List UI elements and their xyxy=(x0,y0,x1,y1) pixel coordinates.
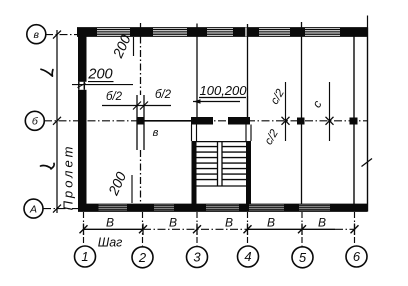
axis 3 line upper xyxy=(196,24,198,118)
top wall outline xyxy=(77,28,368,37)
axis 2 partition wall lines xyxy=(137,95,144,150)
svg-text:5: 5 xyxy=(299,250,307,265)
axis Б solid segment xyxy=(144,120,191,122)
axis 2 line upper xyxy=(140,23,142,95)
axis 2 line lower xyxy=(140,150,142,204)
staircase right wall xyxy=(246,141,251,204)
axis circle 2 xyxy=(132,247,153,268)
right wall outer line xyxy=(367,28,369,212)
svg-text:4: 4 xyxy=(244,249,251,264)
axis circle В xyxy=(27,25,46,44)
dimension vertical с xyxy=(329,82,331,141)
tick at В xyxy=(53,31,61,39)
axis circle А xyxy=(24,199,43,218)
window W4 top xyxy=(259,30,290,35)
dimension line б/2 xyxy=(102,105,171,107)
tick at Б xyxy=(53,117,61,125)
axis circle 1 xyxy=(75,246,96,267)
stair treads right flight xyxy=(222,147,246,180)
svg-text:100,200: 100,200 xyxy=(200,83,248,98)
top wall black band xyxy=(77,28,368,37)
svg-text:Шаг: Шаг xyxy=(98,236,123,250)
label l lower xyxy=(41,163,55,169)
stub above top-right corner xyxy=(367,16,369,28)
svg-text:200: 200 xyxy=(87,67,112,83)
bottom wall outline xyxy=(78,204,368,211)
axis А horizontal xyxy=(43,208,78,210)
svg-text:в: в xyxy=(153,127,159,139)
axis circle 4 xyxy=(238,246,259,267)
right wall inner line xyxy=(353,37,355,205)
svg-text:1: 1 xyxy=(81,249,88,264)
svg-text:в: в xyxy=(34,29,40,41)
bottom dimension line dashdot 2-4 xyxy=(143,228,248,230)
axis circle Б xyxy=(25,111,44,130)
axis circle 3 xyxy=(187,247,208,268)
axis Б horizontal dash-dot xyxy=(44,120,368,122)
stair center gap xyxy=(218,142,223,186)
dimension vertical near с/2 xyxy=(285,82,287,141)
window W2 bottom xyxy=(154,206,174,210)
bottom dimension line solid 1-2 xyxy=(84,228,144,230)
svg-text:б/2: б/2 xyxy=(106,91,123,103)
window W2 top xyxy=(153,30,187,35)
dimension line 100,200 xyxy=(193,101,240,103)
window W4 bottom xyxy=(249,206,284,210)
svg-text:2: 2 xyxy=(138,250,147,265)
window W3 top xyxy=(207,30,233,35)
window in left wall xyxy=(77,82,87,90)
axis stubs below bottom wall xyxy=(84,212,355,247)
window W5 bottom xyxy=(299,206,330,210)
svg-text:В: В xyxy=(106,216,114,230)
svg-text:В: В xyxy=(267,216,275,230)
pylon at axis 3 on row Б xyxy=(191,117,213,125)
svg-text:3: 3 xyxy=(193,250,201,265)
axis 5 line xyxy=(301,22,303,204)
window W1 top xyxy=(97,30,130,35)
axis circle 5 xyxy=(292,247,313,268)
axis circle 6 xyxy=(346,246,367,267)
svg-text:6: 6 xyxy=(353,249,361,264)
tick on right wall xyxy=(362,159,373,167)
diagonal ticks on bottom dimension line xyxy=(80,225,359,233)
svg-text:Пролет: Пролет xyxy=(61,144,76,211)
window W5 top xyxy=(305,30,340,35)
svg-text:В: В xyxy=(318,216,326,230)
axis В horizontal xyxy=(45,34,78,36)
tick bars on bottom dimension line xyxy=(84,224,355,236)
left dimension line xyxy=(56,30,58,213)
stair enclosure upper lines xyxy=(192,125,252,142)
window W1 bottom xyxy=(99,206,128,210)
svg-text:А: А xyxy=(29,203,37,215)
left wall xyxy=(78,28,87,212)
tick at А xyxy=(53,205,61,213)
stair flights bottom edge xyxy=(197,185,247,187)
bottom dimension line dashdot 5-6 xyxy=(335,228,355,230)
staircase left wall xyxy=(192,141,197,204)
pylon at axis 4 on row Б xyxy=(228,117,250,125)
window W3 bottom xyxy=(206,206,239,210)
svg-text:б/2: б/2 xyxy=(155,89,172,101)
bottom dimension line solid 4-5 xyxy=(248,228,336,230)
slit at axis 4 in top wall xyxy=(245,28,247,37)
column B5 xyxy=(297,118,305,125)
axis 4 line upper xyxy=(247,24,249,117)
label l upper xyxy=(41,69,53,76)
stair treads left flight xyxy=(197,147,218,180)
svg-text:В: В xyxy=(169,216,177,230)
stair top edge xyxy=(197,141,247,143)
column B2 xyxy=(137,117,145,125)
svg-text:В: В xyxy=(225,216,233,230)
column at right wall row Б xyxy=(350,118,358,125)
bottom wall black band xyxy=(78,204,368,212)
